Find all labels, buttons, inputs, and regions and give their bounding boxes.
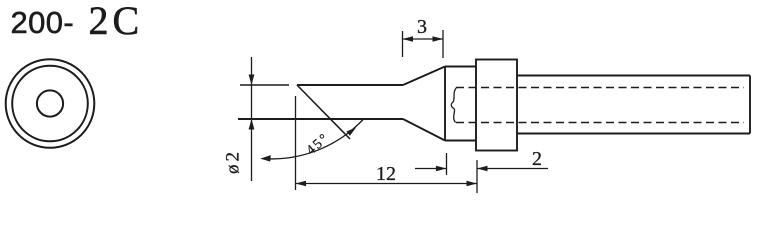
- dim 12 left arrow: [296, 181, 307, 187]
- barrel top line: [297, 84, 403, 86]
- angle 45 arc right arrow: [346, 128, 356, 136]
- shaft right end cap: [749, 76, 751, 134]
- shaft bottom line: [517, 133, 750, 135]
- barrel bottom line + ø2 lower extension: [238, 118, 403, 120]
- nut rectangle: [476, 60, 517, 151]
- bevel 45 degree face line: [297, 85, 350, 139]
- dim 12 dimension line: [296, 183, 478, 185]
- bore break squiggle: [451, 88, 456, 123]
- front view middle circle: [12, 66, 88, 142]
- hidden bore bottom dashed line: [456, 122, 744, 124]
- ø2 upper extension line: [240, 84, 289, 86]
- svg-text:ø2: ø2: [223, 149, 244, 174]
- dim 2 left extension line: [446, 153, 448, 175]
- dim 12 left extension line: [295, 96, 297, 190]
- dim 2 arrow pointing left: [477, 166, 488, 172]
- svg-text:2C: 2C: [89, 0, 144, 43]
- front view inner circle: [37, 90, 63, 116]
- dim 2 dimension line right segment: [477, 168, 548, 170]
- angle 45 arc left arrow: [261, 155, 271, 162]
- dim 2 arrow pointing right: [436, 166, 447, 172]
- dim 3 right arrow: [433, 36, 444, 42]
- svg-text:12: 12: [376, 163, 396, 185]
- dim ø2 arrow up at bottom face: [249, 119, 255, 130]
- svg-text:2: 2: [532, 148, 542, 170]
- cone bottom edge: [403, 119, 445, 141]
- hidden bore top dashed line: [456, 87, 744, 89]
- dim ø2 vertical dimension line: [251, 57, 253, 181]
- shaft top line: [517, 75, 750, 77]
- cone base vertical: [444, 67, 446, 141]
- dim 3 right extension line: [442, 30, 444, 58]
- dim 12 right arrow: [467, 181, 478, 187]
- dim 3 left arrow: [403, 36, 414, 42]
- svg-text:200-: 200-: [11, 5, 75, 40]
- dim 3 dimension line: [403, 38, 444, 40]
- neck bottom edge: [445, 140, 476, 142]
- dim 12 right extension line: [476, 160, 478, 193]
- svg-text:3: 3: [417, 16, 427, 38]
- front view outer circle: [6, 59, 95, 148]
- angle 45 arc: [262, 119, 365, 159]
- cone top edge: [403, 67, 445, 86]
- dim ø2 arrow down at top face: [249, 75, 255, 86]
- neck top edge: [445, 66, 476, 68]
- svg-text:45°: 45°: [304, 130, 333, 158]
- dim 3 left extension line: [402, 31, 404, 57]
- dim 2 dimension line left segment: [415, 168, 447, 170]
